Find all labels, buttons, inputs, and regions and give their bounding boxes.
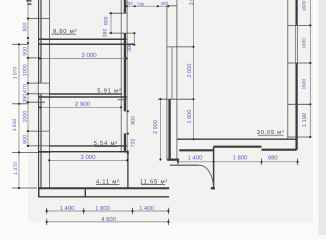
room label 4.11 <box>96 178 120 185</box>
tick 800 top <box>27 18 50 20</box>
window W2 inner line <box>297 25 299 63</box>
tick 470 <box>27 93 42 95</box>
svg-text:380: 380 <box>102 29 108 38</box>
tick 500 <box>27 57 42 59</box>
tick 1600c <box>288 103 312 105</box>
wall right ext band upper <box>295 0 297 25</box>
dots 4600 <box>46 221 170 223</box>
svg-text:380: 380 <box>125 1 133 6</box>
wall big room south inner <box>177 138 296 140</box>
dim line bottom chain 4600 <box>47 221 169 223</box>
dots top chain <box>126 5 170 7</box>
dots 2500 <box>159 98 161 161</box>
dots 3000 room5.91 <box>39 57 128 59</box>
svg-text:3 000: 3 000 <box>80 154 96 161</box>
wall hall bottom cap <box>167 159 179 161</box>
door D1 swing arc <box>199 165 213 188</box>
svg-text:470: 470 <box>23 84 29 93</box>
svg-text:800: 800 <box>131 116 137 125</box>
window W3 jambs in south wall <box>39 187 86 197</box>
dots right chain <box>309 24 311 138</box>
dots 3000 room4.11 <box>48 159 128 161</box>
wall left ext line2 upper <box>40 0 42 83</box>
partition room4.11 east <box>127 150 129 188</box>
tick door1 top <box>109 12 127 14</box>
dots 2900 <box>39 106 122 108</box>
wall room5.91 south line2 <box>38 96 127 98</box>
dim line left outer chain <box>18 44 20 188</box>
svg-text:380: 380 <box>127 43 133 52</box>
tick 1600a <box>288 24 312 26</box>
svg-text:1 400: 1 400 <box>139 205 154 212</box>
wall big room east inner face <box>287 0 289 140</box>
dim line 2500 corridor <box>160 99 162 160</box>
svg-text:1 400: 1 400 <box>188 154 203 161</box>
wall right ext band lower <box>295 63 297 150</box>
tick 2000 top <box>167 46 194 48</box>
svg-text:5,91 м²: 5,91 м² <box>97 88 121 95</box>
cut-off label fragment top-left <box>26 0 31 5</box>
svg-text:390: 390 <box>23 94 29 103</box>
svg-text:2 900: 2 900 <box>75 101 91 108</box>
window W1 in left wall <box>38 83 49 94</box>
door D1 leaf <box>170 164 199 166</box>
wall hall mid line <box>171 47 173 99</box>
svg-text:980: 980 <box>268 154 279 161</box>
svg-text:790: 790 <box>137 2 145 7</box>
wall corridor dark band a <box>124 0 126 13</box>
wall hall top cap <box>167 5 177 7</box>
tick 1970-1910 <box>12 103 28 105</box>
svg-text:1 800: 1 800 <box>233 154 248 161</box>
room label 5.54 <box>94 140 118 147</box>
right scrollbar strip <box>319 0 326 235</box>
wall south dark <box>38 187 169 189</box>
tick 1190 bottom <box>288 136 312 138</box>
tick dashes bottom chain 1 <box>47 208 169 214</box>
svg-text:800: 800 <box>103 16 109 25</box>
wall corridor dark band b <box>124 33 126 111</box>
dots left outer chain <box>18 43 20 189</box>
svg-text:600: 600 <box>23 135 29 144</box>
dim line 3000 room4.11 <box>49 159 127 161</box>
svg-text:1 190: 1 190 <box>302 113 308 127</box>
tick 1970 top <box>12 43 28 45</box>
wall left ext line1 lower <box>38 94 40 197</box>
svg-text:1 910: 1 910 <box>12 119 18 132</box>
tick 1000b <box>27 130 50 132</box>
wall room5.54 south line1 <box>50 145 127 147</box>
dim line right chain <box>309 0 311 137</box>
wall corridor dark band c <box>124 133 126 152</box>
svg-text:720: 720 <box>131 139 137 148</box>
wall corridor east face <box>126 0 128 153</box>
wall left inner face <box>49 0 51 188</box>
wall room5.54 top cap <box>118 99 128 101</box>
svg-text:2 000: 2 000 <box>187 64 193 78</box>
svg-text:1000: 1000 <box>23 111 29 123</box>
tick 1600b <box>288 62 312 64</box>
wall corridor west face <box>120 0 122 153</box>
wall room9.80 south line2 <box>38 43 134 45</box>
wall room9.80 south line1 <box>38 38 127 40</box>
svg-text:800: 800 <box>23 23 29 32</box>
dim line bottom right chain <box>178 161 298 163</box>
svg-text:400: 400 <box>160 1 168 6</box>
dim line top chain <box>127 5 169 7</box>
svg-text:1600: 1600 <box>302 38 308 49</box>
wall big room south west part <box>214 146 262 148</box>
wall stub right of door <box>211 187 215 189</box>
svg-text:1 800: 1 800 <box>95 205 110 212</box>
dim line 380 wall <box>133 33 135 45</box>
room label 11.65 <box>140 178 168 185</box>
tick door1 bottom <box>109 32 136 34</box>
outer tick left step <box>12 151 51 153</box>
wall room5.54 south line2 <box>38 151 127 153</box>
dim line left inner chain <box>27 0 29 146</box>
wall left ext line2 lower <box>40 94 42 189</box>
room label 5.91 <box>97 88 123 95</box>
svg-text:1 400: 1 400 <box>60 205 75 212</box>
dim line bottom chain 1 <box>47 210 169 212</box>
dim line 2900 room5.54 <box>40 106 121 108</box>
svg-text:2 500: 2 500 <box>153 120 159 134</box>
tick 1000a <box>27 82 42 84</box>
room label 30.05 <box>257 129 285 136</box>
dots bottom chain 1 <box>46 210 170 212</box>
dots 380 wall <box>133 32 135 46</box>
wall jog vertical at door right <box>213 147 215 189</box>
svg-text:1600: 1600 <box>302 79 308 90</box>
svg-text:1 600: 1 600 <box>187 110 193 124</box>
wall hall east face <box>176 0 178 160</box>
wall left ext line1 upper <box>38 0 40 83</box>
tick dashes 4600 <box>47 219 169 225</box>
wall vestibule south <box>179 149 213 151</box>
svg-text:3 000: 3 000 <box>81 52 97 59</box>
wall room5.91 south line1 <box>50 93 122 95</box>
dots door1 <box>110 12 112 34</box>
dots hall chain <box>192 46 194 140</box>
wall hall west face <box>166 5 168 160</box>
wall south outer face <box>38 196 169 198</box>
tick 600 <box>27 145 50 147</box>
tick dashes bottom right chain <box>178 159 298 165</box>
dim line 3000 room5.91 <box>40 57 127 59</box>
wall hall dark band <box>168 99 170 160</box>
tick 1370 bottom <box>12 187 37 189</box>
svg-text:1 370: 1 370 <box>13 162 19 175</box>
wall big room south east part <box>262 149 297 151</box>
tick 2000-1600 <box>158 98 194 100</box>
dots bottom right chain <box>177 161 299 163</box>
window W2 outer line <box>295 25 297 63</box>
room label 9.80 <box>51 28 77 35</box>
svg-text:1 970: 1 970 <box>13 67 19 80</box>
dots door2 800-720 <box>127 110 129 154</box>
dim line 2000-1600 hall <box>193 0 195 139</box>
svg-text:1000: 1000 <box>23 64 29 76</box>
svg-text:4 600: 4 600 <box>101 216 116 223</box>
svg-text:1600: 1600 <box>302 0 308 11</box>
tick 390 <box>27 101 46 103</box>
svg-text:3 600: 3 600 <box>189 0 195 5</box>
dim line door1 800 <box>110 13 112 33</box>
svg-text:500: 500 <box>23 47 29 56</box>
dots left inner chain <box>27 17 29 147</box>
